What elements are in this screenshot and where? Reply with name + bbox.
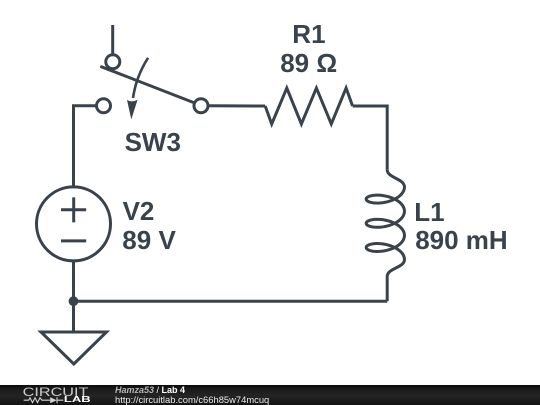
wire from V2 bottom to ground — [72, 261, 75, 332]
footer author line — [115, 386, 185, 395]
SW3 arrow head — [127, 100, 138, 120]
svg-text:LAB: LAB — [64, 395, 91, 404]
SW3 top terminal circle — [106, 55, 120, 69]
label SW3 — [125, 129, 181, 155]
V2 minus sign — [61, 239, 86, 242]
node junction dot — [69, 296, 79, 306]
voltage source V2 — [37, 187, 111, 261]
value 89 V — [122, 227, 176, 253]
V2 plus sign — [61, 197, 86, 222]
label L1 — [414, 199, 444, 225]
label R1 — [292, 21, 325, 47]
SW3 blade — [102, 67, 194, 103]
ground symbol — [41, 332, 107, 364]
wire bottom rail — [74, 300, 388, 303]
wire top stub of SW3 — [111, 25, 114, 55]
value 890 mH — [415, 227, 508, 253]
wire from L1 bottom to bottom rail — [386, 277, 389, 302]
footer bar — [0, 385, 540, 405]
wire from SW3 left terminal to V2 — [74, 106, 97, 187]
label V2 — [123, 198, 155, 224]
SW3 left terminal circle — [97, 99, 111, 113]
CircuitLab logo — [0, 385, 110, 405]
resistor R1 — [265, 88, 352, 124]
value 89 Ohm — [280, 50, 337, 76]
wire from SW3 right terminal to R1 — [209, 104, 266, 107]
V2 circle — [37, 187, 111, 261]
wire from R1 to top right corner — [353, 106, 388, 170]
SW3 actuation arrow arc — [133, 58, 148, 98]
switch SW3 — [97, 25, 209, 119]
SW3 right terminal circle — [194, 99, 208, 113]
inductor L1 coil — [366, 170, 404, 277]
footer url line — [115, 395, 269, 404]
